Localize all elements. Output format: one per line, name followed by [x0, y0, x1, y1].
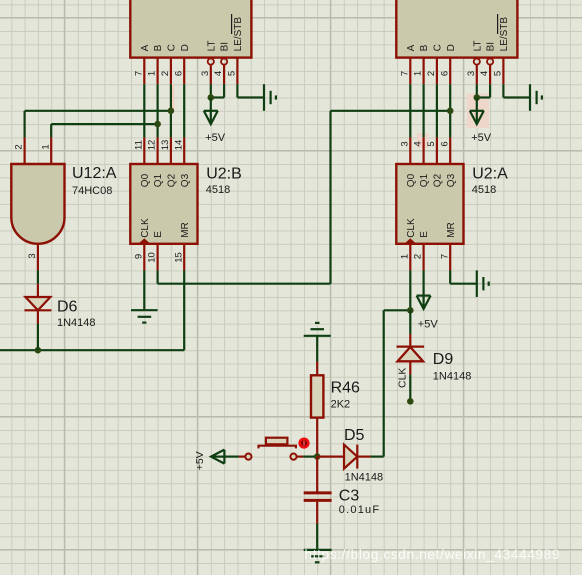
inversion bubble BI pin	[221, 59, 227, 65]
interactive button red indicator	[298, 438, 309, 449]
svg-text:1N4148: 1N4148	[433, 370, 472, 382]
svg-text:6: 6	[173, 71, 184, 76]
svg-text:Q2: Q2	[167, 173, 178, 187]
pin 3 stub (LT)	[210, 65, 212, 84]
svg-text:11: 11	[133, 140, 144, 150]
D6 cathode pin	[37, 310, 39, 323]
power +5V symbol (U2:A E pin)	[417, 296, 431, 309]
junction LT/BI node	[208, 94, 215, 101]
wire BI pin down	[223, 84, 225, 97]
svg-text:1: 1	[399, 254, 410, 259]
pin 5 stub (LE/STB)	[236, 58, 238, 85]
wire MR U2:A down	[449, 270, 451, 283]
decoder chip body (right, partially cut at top)	[396, 0, 517, 58]
junction on B column	[154, 121, 161, 128]
inversion bubble BI pin right	[487, 59, 493, 65]
pin 2 stub (E) right	[423, 244, 425, 271]
wire D column left	[183, 84, 185, 137]
svg-text:MR: MR	[446, 222, 457, 238]
pin 1 stub (B)	[157, 58, 159, 85]
C3 bottom pin	[316, 502, 318, 524]
ground symbol below U2:B CLK	[131, 310, 158, 322]
D6 anode pin	[37, 284, 39, 297]
cascade wire from U2:B E pin: up segment	[329, 111, 331, 284]
svg-text:1N4148: 1N4148	[345, 471, 384, 483]
push button terminal left	[245, 454, 251, 460]
wire gate input 2 horizontal to C column	[25, 110, 171, 112]
wire E U2:B horizontal to cascade	[158, 283, 331, 285]
junction on right D column	[447, 108, 454, 115]
highlight on pin 4 number of U2:A	[417, 133, 429, 148]
svg-text:C: C	[167, 44, 178, 51]
button right pin	[297, 456, 304, 458]
overline on STB (right)	[497, 14, 499, 34]
D9 anode pin	[409, 361, 411, 374]
svg-text:2: 2	[160, 71, 171, 76]
C3 top pin	[316, 457, 318, 492]
pin 6 stub right (D)	[449, 58, 451, 85]
svg-text:LE/STB: LE/STB	[499, 17, 510, 52]
svg-text:U2:A: U2:A	[472, 166, 508, 183]
wire gate input 2 vertical	[24, 111, 26, 138]
wire LT pin down	[210, 84, 212, 97]
wire D9 to CLK terminal	[409, 375, 411, 402]
svg-text:Q0: Q0	[140, 173, 151, 187]
pin 7 stub (MR) right	[449, 244, 451, 271]
ground symbol right of U2:A MR	[477, 270, 489, 297]
svg-text:14: 14	[173, 140, 184, 151]
wire button to node	[303, 456, 317, 458]
cascade wire horizontal to Q3 right	[331, 110, 451, 112]
AND gate U12:A body (vertical, output down)	[11, 164, 64, 244]
pin 6 stub (Q3) right	[449, 137, 451, 164]
junction CLK node	[407, 307, 414, 314]
pin 1 stub (CLK) right	[409, 244, 411, 271]
ground symbol (right of left decoder)	[264, 84, 276, 111]
svg-text:Q1: Q1	[153, 173, 164, 187]
overline on STB	[231, 14, 233, 34]
wire gate output to D6	[37, 270, 39, 283]
capacitor C3 plates	[304, 493, 332, 501]
wire E U2:B down	[157, 270, 159, 283]
wire gate input 1 horizontal to B column	[51, 123, 157, 125]
svg-text:CLK: CLK	[406, 218, 417, 238]
svg-text:12: 12	[147, 140, 158, 151]
svg-text:LE/STB: LE/STB	[233, 17, 244, 52]
svg-text:https://blog.csdn.net/weixin_4: https://blog.csdn.net/weixin_43444989	[305, 547, 561, 562]
svg-text:2: 2	[426, 71, 437, 76]
wire C3 to ground	[316, 524, 318, 549]
D6 cathode bar	[24, 309, 51, 311]
svg-text:D9: D9	[433, 351, 454, 368]
wire BI to LT junction	[211, 96, 224, 98]
highlight sliver on decoder C wire	[172, 84, 174, 111]
wire LE/STB pin down (left)	[236, 84, 238, 97]
wire BI pin down right	[489, 84, 491, 97]
svg-text:5: 5	[493, 71, 504, 76]
svg-text:3: 3	[27, 253, 38, 258]
svg-text:10: 10	[147, 252, 158, 263]
D5 cathode pin	[357, 456, 370, 458]
svg-text:5: 5	[227, 71, 238, 76]
gate output pin 3 stub	[37, 244, 39, 271]
ground symbol above R46 (inverted)	[304, 323, 331, 336]
svg-text:7: 7	[133, 71, 144, 76]
wire MR U2:A to ground	[450, 283, 477, 285]
svg-text:2: 2	[413, 254, 424, 259]
pin 7 stub (A)	[143, 58, 145, 85]
svg-text:CLK: CLK	[397, 368, 409, 388]
svg-text:6: 6	[439, 141, 450, 146]
svg-text:LT: LT	[206, 40, 217, 51]
svg-text:3: 3	[466, 71, 477, 76]
junction D6 node	[35, 347, 42, 354]
svg-text:2K2: 2K2	[331, 398, 351, 410]
svg-text:1N4148: 1N4148	[57, 317, 96, 329]
pin 2 stub (C)	[170, 58, 172, 85]
power +5V symbol (right decoder)	[470, 98, 484, 125]
svg-text:CLK: CLK	[140, 218, 151, 238]
wire gate input 1 vertical	[50, 124, 52, 137]
svg-text:+5V: +5V	[471, 132, 492, 144]
wire E U2:A down	[423, 270, 425, 295]
D5 anode pin	[317, 456, 344, 458]
svg-text:BI: BI	[486, 42, 497, 51]
svg-text:Q1: Q1	[419, 173, 430, 187]
svg-text:B: B	[419, 44, 430, 51]
wire D6 to junction	[37, 324, 39, 351]
svg-text:E: E	[153, 231, 164, 238]
svg-text:4518: 4518	[206, 184, 230, 196]
svg-text:1: 1	[413, 71, 424, 76]
pin 14 stub (Q3)	[183, 137, 185, 164]
pin 3 stub (Q0) right	[409, 137, 411, 164]
gate input pin 1 stub	[50, 137, 52, 164]
pin 4 stub right (BI)	[489, 65, 491, 84]
svg-text:+5V: +5V	[194, 451, 206, 470]
svg-text:0.01uF: 0.01uF	[339, 504, 380, 516]
wire ground to R46	[316, 336, 318, 362]
ground symbol (right of right decoder)	[530, 84, 542, 111]
D9 cathode bar	[397, 346, 425, 348]
svg-text:A: A	[406, 44, 417, 51]
ground symbol below C3	[304, 550, 332, 562]
svg-text:4: 4	[479, 71, 490, 76]
junction R46/C3/D5 node	[314, 453, 321, 460]
counter chip U2:A body	[396, 164, 463, 244]
svg-text:+5V: +5V	[418, 318, 439, 330]
pin 5 stub (Q2) right	[436, 137, 438, 164]
wire MR U2:B down	[183, 270, 185, 350]
D5 cathode bar	[356, 445, 358, 469]
junction on C column	[168, 108, 175, 115]
pin 15 stub (MR)	[183, 244, 185, 271]
counter chip U2:B body	[130, 164, 197, 244]
highlight around +5V power symbol (right)	[467, 93, 489, 128]
wire LE/STB pin down (right)	[502, 84, 504, 97]
svg-text:U2:B: U2:B	[206, 166, 242, 183]
push button cap	[266, 438, 288, 445]
pin 10 stub (E)	[157, 244, 159, 271]
wire C column left	[170, 84, 172, 137]
svg-text:4518: 4518	[472, 184, 496, 196]
svg-text:3: 3	[399, 141, 410, 146]
svg-text:D5: D5	[344, 427, 365, 444]
pin 11 stub (Q0)	[143, 137, 145, 164]
power +5V symbol (button, pointing left)	[211, 450, 224, 464]
svg-text:74HC08: 74HC08	[72, 185, 112, 197]
svg-text:1: 1	[40, 144, 51, 149]
svg-text:D: D	[446, 44, 457, 51]
junction LT/BI node right	[474, 94, 481, 101]
wire C column right	[436, 84, 438, 137]
resistor R46 body	[311, 375, 323, 417]
svg-text:LT: LT	[472, 40, 483, 51]
wire B column right	[423, 84, 425, 137]
svg-text:BI: BI	[220, 42, 231, 51]
CLK terminal dot	[407, 398, 414, 405]
pin 9 stub (CLK)	[143, 244, 145, 271]
push button actuator bar	[259, 446, 296, 449]
svg-text:3: 3	[200, 71, 211, 76]
svg-text:R46: R46	[331, 379, 360, 396]
gate input pin 2 stub	[24, 137, 26, 164]
wire node vertical down to D5	[383, 310, 385, 456]
pin 4 stub (BI)	[223, 65, 225, 84]
wire node horizontal	[384, 309, 411, 311]
decoder chip U? body (left, partially cut at top)	[130, 0, 251, 58]
pin 4 stub (Q1) right	[423, 137, 425, 164]
wire D5 to node vertical	[371, 456, 384, 458]
svg-text:E: E	[419, 231, 430, 238]
diode D5 (pointing right)	[344, 445, 357, 469]
wire bottom-left horizontal net	[0, 349, 184, 351]
inversion bubble LT pin	[208, 59, 214, 65]
svg-text:Q2: Q2	[433, 173, 444, 187]
svg-text:D: D	[180, 44, 191, 51]
pin 7 stub right (A)	[409, 58, 411, 85]
svg-text:+5V: +5V	[205, 132, 226, 144]
wire B column left	[157, 84, 159, 137]
pin 1 stub right (B)	[423, 58, 425, 85]
wire LT pin down right	[476, 84, 478, 97]
R46 bottom pin	[316, 418, 318, 457]
wire LE/STB to ground (left)	[237, 96, 264, 98]
svg-text:U12:A: U12:A	[72, 165, 117, 182]
wire D column right	[449, 84, 451, 137]
svg-text:7: 7	[439, 254, 450, 259]
wire LE/STB to ground (right)	[503, 96, 530, 98]
wire CLK U2:A down to node	[409, 270, 411, 310]
svg-text:4: 4	[413, 141, 424, 146]
wire A column right	[409, 84, 411, 137]
svg-text:Q3: Q3	[180, 173, 191, 187]
svg-text:Q3: Q3	[446, 173, 457, 187]
svg-text:C3: C3	[339, 488, 360, 505]
svg-text:4: 4	[213, 71, 224, 76]
svg-text:13: 13	[160, 140, 171, 151]
svg-text:Q0: Q0	[406, 173, 417, 187]
inversion bubble LT pin right	[474, 59, 480, 65]
svg-text:2: 2	[14, 144, 25, 149]
svg-text:15: 15	[173, 252, 184, 263]
svg-text:A: A	[140, 44, 151, 51]
clock caret on CLK pin right	[404, 238, 416, 243]
svg-text:B: B	[153, 44, 164, 51]
diode D9 (pointing up)	[398, 347, 424, 361]
D9 cathode pin	[409, 334, 411, 347]
power +5V symbol (left decoder)	[204, 98, 218, 125]
wire BI to LT junction right	[477, 96, 490, 98]
wire node to D9 cathode	[409, 310, 411, 334]
pin 3 stub right (LT)	[476, 65, 478, 84]
pin 13 stub (Q2)	[170, 137, 172, 164]
push button terminal right	[290, 454, 296, 460]
pin 5 stub right (LE/STB)	[502, 58, 504, 85]
diode D6 (pointing down)	[25, 297, 50, 310]
svg-text:6: 6	[439, 71, 450, 76]
svg-text:1: 1	[147, 71, 158, 76]
button left pin	[239, 456, 245, 458]
wire CLK U2:B to ground	[143, 270, 145, 310]
svg-text:C: C	[433, 44, 444, 51]
pin 6 stub (D)	[183, 58, 185, 85]
R46 top pin	[316, 362, 318, 376]
wire A column left	[143, 84, 145, 137]
pin 12 stub (Q1)	[157, 137, 159, 164]
svg-text:9: 9	[133, 254, 144, 259]
clock caret on CLK pin	[138, 238, 150, 243]
pin 2 stub right (C)	[436, 58, 438, 85]
svg-text:5: 5	[426, 141, 437, 146]
wire arrow to button	[224, 456, 239, 458]
svg-text:7: 7	[399, 71, 410, 76]
svg-text:D6: D6	[57, 298, 78, 315]
svg-text:MR: MR	[180, 222, 191, 238]
